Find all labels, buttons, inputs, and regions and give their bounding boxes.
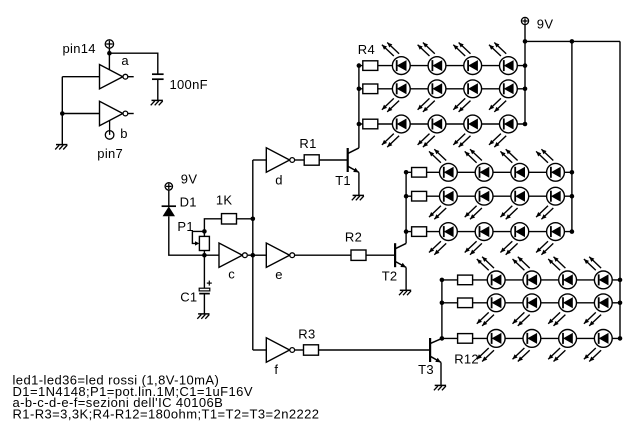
node C1/P1 branch xyxy=(202,253,207,258)
LED led11 xyxy=(464,115,482,133)
svg-text:C1: C1 xyxy=(180,290,197,305)
LED led35 xyxy=(559,330,577,348)
wire node into inverter a xyxy=(108,53,110,70)
op-amp inverter d xyxy=(266,148,289,172)
capacitor C1 wire top xyxy=(203,255,205,288)
op-amp inverter f xyxy=(266,338,289,362)
wire R1 to T1 xyxy=(319,159,348,161)
LED led32 xyxy=(594,294,612,312)
potentiometer P1 xyxy=(199,236,209,250)
LED led14 xyxy=(475,163,493,181)
ground under T1 xyxy=(353,194,364,196)
svg-text:D1: D1 xyxy=(180,194,197,209)
wire matrix1 right rail xyxy=(524,41,526,124)
power symbol 9V left xyxy=(165,183,172,190)
wire 1K to bus xyxy=(237,218,253,220)
wire output stub a xyxy=(128,76,134,78)
svg-text:pin14: pin14 xyxy=(63,41,96,56)
LED led16 xyxy=(547,163,565,181)
wire bus to e xyxy=(253,254,266,256)
node pot top xyxy=(202,229,207,234)
LED led20 xyxy=(547,187,565,205)
LED led24 xyxy=(547,223,565,241)
wire output stub b xyxy=(128,113,134,115)
LED led29 xyxy=(487,294,505,312)
wire P1 wiper xyxy=(192,231,204,243)
svg-text:R4: R4 xyxy=(358,42,375,57)
resistor R10 xyxy=(458,275,473,285)
op-amp inverter b xyxy=(100,101,123,125)
LED led23 xyxy=(511,223,529,241)
ground inputs a-b xyxy=(56,144,67,146)
LED led33 xyxy=(487,330,505,348)
wire R3 to T3 xyxy=(319,349,431,351)
node matrix3 row3 right xyxy=(618,336,623,341)
LED led9 xyxy=(392,115,410,133)
svg-text:R3: R3 xyxy=(298,327,315,342)
svg-text:100nF: 100nF xyxy=(170,77,208,92)
node matrix1 row3 right xyxy=(523,122,528,127)
resistor R3 xyxy=(304,345,319,355)
node inputs junction xyxy=(60,111,65,116)
LED led25 xyxy=(487,271,505,289)
resistor R8 xyxy=(412,191,427,201)
svg-text:T3: T3 xyxy=(418,362,434,377)
ground under 100nF xyxy=(152,99,163,101)
svg-text:R2: R2 xyxy=(345,229,362,244)
node supply matrix1 xyxy=(523,39,528,44)
LED led8 xyxy=(500,80,518,98)
node matrix2 row2 left xyxy=(404,194,409,199)
LED led3 xyxy=(464,57,482,75)
LED led26 xyxy=(523,271,541,289)
node matrix1 row2 right xyxy=(523,87,528,92)
wire e to R2 xyxy=(295,254,352,256)
wire pin14 to node xyxy=(108,48,110,53)
node matrix1 row1 right xyxy=(523,63,528,68)
transistor T3 xyxy=(429,338,431,362)
label C1 plus xyxy=(207,282,212,284)
wire matrix3 right rail xyxy=(619,41,621,338)
LED led30 xyxy=(523,294,541,312)
wire supply bus xyxy=(525,40,620,42)
svg-text:T1: T1 xyxy=(335,173,351,188)
LED led6 xyxy=(428,80,446,98)
resistor R6 xyxy=(363,119,378,129)
svg-text:1K: 1K xyxy=(216,193,233,208)
ground under T2 xyxy=(400,289,411,291)
wire matrix1 row1 xyxy=(359,65,525,67)
resistor R4 xyxy=(363,61,378,71)
wire T3 emitter to ground xyxy=(440,362,442,385)
wire node to 100nF cap xyxy=(109,53,157,74)
power symbol 9V right xyxy=(521,17,528,24)
capacitor 100nF xyxy=(152,73,164,75)
wire pot top to 1K xyxy=(204,219,221,232)
svg-text:R12: R12 xyxy=(454,352,479,367)
LED led2 xyxy=(428,57,446,75)
svg-text:b: b xyxy=(120,126,128,141)
wire matrix2 left rail xyxy=(405,172,407,243)
node supply matrix2 xyxy=(570,39,575,44)
node matrix1 row1 left xyxy=(357,63,362,68)
op-amp inverter a xyxy=(100,65,123,89)
ground under T3 xyxy=(435,384,446,386)
svg-text:e: e xyxy=(275,267,283,282)
capacitor C1 xyxy=(199,288,210,291)
LED led19 xyxy=(511,187,529,205)
svg-text:9V: 9V xyxy=(181,171,198,186)
wire matrix2 row1 xyxy=(406,171,572,173)
wire bus to d xyxy=(253,159,266,161)
resistor R2 xyxy=(351,250,366,260)
svg-text:P1: P1 xyxy=(177,219,194,234)
wire matrix2 row2 xyxy=(406,195,572,197)
node bus-c-e xyxy=(251,253,256,258)
LED led12 xyxy=(500,115,518,133)
resistor R5 xyxy=(363,84,378,94)
wire 100nF to ground xyxy=(157,79,159,100)
svg-text:T2: T2 xyxy=(382,269,398,284)
node matrix2 row1 left xyxy=(404,170,409,175)
wire input inverter a xyxy=(62,76,99,78)
LED led13 xyxy=(440,163,458,181)
LED led17 xyxy=(440,187,458,205)
node matrix3 row2 left xyxy=(440,301,445,306)
LED led34 xyxy=(523,330,541,348)
wire matrix1 row3 xyxy=(359,123,525,125)
LED led36 xyxy=(594,330,612,348)
LED led10 xyxy=(428,115,446,133)
op-amp inverter c xyxy=(219,243,242,267)
LED led7 xyxy=(464,80,482,98)
LED led22 xyxy=(475,223,493,241)
LED led27 xyxy=(559,271,577,289)
wire matrix3 row2 xyxy=(442,302,620,304)
node bus-1K xyxy=(251,217,256,222)
wire pot bottom xyxy=(203,251,205,256)
wire D1 to input line xyxy=(169,216,219,255)
LED led31 xyxy=(559,294,577,312)
resistor R7 xyxy=(412,168,427,178)
resistor R1 xyxy=(304,155,319,165)
wire bus to f xyxy=(253,349,266,351)
node matrix1 row2 left xyxy=(357,87,362,92)
node pin14 junction xyxy=(107,51,112,56)
wire matrix1 left rail xyxy=(358,66,360,148)
wire inputs a-b to ground xyxy=(61,77,63,145)
power symbol pin7 xyxy=(105,131,114,140)
wire R2 to T2 xyxy=(366,254,395,256)
wire input inverter b xyxy=(62,113,99,115)
LED led4 xyxy=(500,57,518,75)
wire d to R1 xyxy=(295,159,305,161)
node matrix3 row3 left xyxy=(440,336,445,341)
svg-text:9V: 9V xyxy=(537,16,554,31)
wire matrix3 left rail xyxy=(441,280,443,339)
LED led18 xyxy=(475,187,493,205)
resistor 1K xyxy=(222,214,237,224)
transistor T1 xyxy=(347,148,349,172)
svg-text:R1-R3=3,3K;R4-R12=180ohm;T1=T2: R1-R3=3,3K;R4-R12=180ohm;T1=T2=T3=2n2222 xyxy=(13,406,320,421)
resistor R11 xyxy=(458,298,473,308)
node matrix2 row2 right xyxy=(570,194,575,199)
wire pot top to node xyxy=(203,231,205,236)
LED led21 xyxy=(440,223,458,241)
node matrix1 row3 left xyxy=(357,122,362,127)
node matrix2 row3 right xyxy=(570,229,575,234)
node matrix3 row2 right xyxy=(618,301,623,306)
wire matrix3 row3 xyxy=(442,337,620,339)
wire 9V to bus xyxy=(524,25,526,42)
LED led15 xyxy=(511,163,529,181)
power symbol pin14 (+) xyxy=(105,40,113,48)
wire matrix2 right rail xyxy=(571,41,573,231)
wire C1 to ground xyxy=(203,294,205,314)
svg-text:a: a xyxy=(121,53,129,68)
node matrix3 row1 right xyxy=(618,278,623,283)
wire matrix1 row2 xyxy=(359,88,525,90)
wire vertical bus xyxy=(252,160,254,350)
transistor T2 xyxy=(394,243,396,267)
resistor R12 xyxy=(458,334,473,344)
wire f to R3 xyxy=(295,349,304,351)
wire T2 emitter to ground xyxy=(405,267,407,290)
diode D1 xyxy=(162,205,176,207)
LED led1 xyxy=(392,57,410,75)
wire matrix3 row1 xyxy=(442,279,620,281)
op-amp inverter e xyxy=(266,243,289,267)
node matrix3 row1 left xyxy=(440,278,445,283)
svg-text:R1: R1 xyxy=(299,136,316,151)
svg-text:pin7: pin7 xyxy=(97,146,123,161)
svg-text:f: f xyxy=(274,362,278,377)
LED led28 xyxy=(594,271,612,289)
svg-text:c: c xyxy=(228,267,235,282)
node matrix2 row1 right xyxy=(570,170,575,175)
wire T1 emitter to ground xyxy=(358,172,360,195)
svg-text:d: d xyxy=(275,172,283,187)
ground under C1 xyxy=(198,313,209,315)
node matrix2 row3 left xyxy=(404,229,409,234)
wire 9V to D1 xyxy=(168,190,170,206)
resistor R9 xyxy=(412,227,427,237)
wire matrix2 row3 xyxy=(406,231,572,233)
LED led5 xyxy=(392,80,410,98)
wire c output to bus xyxy=(248,254,253,256)
